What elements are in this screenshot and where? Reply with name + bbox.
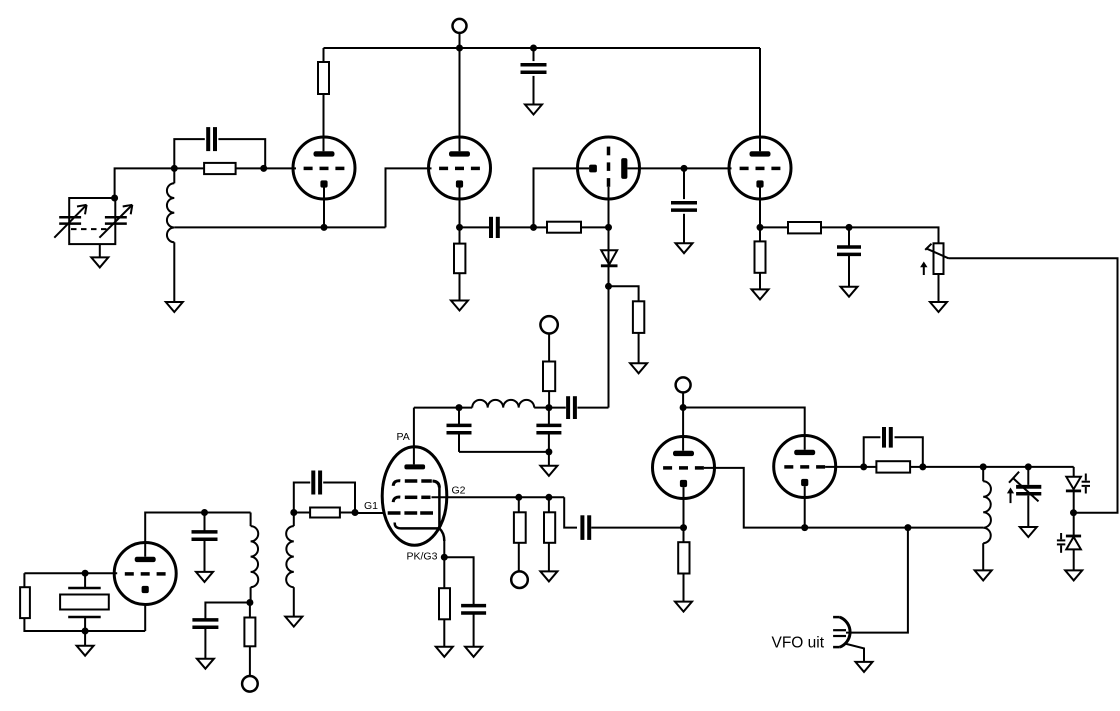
- node C3 out: [530, 224, 537, 231]
- wire C9 frame: [294, 483, 355, 513]
- wire PA anode to pi: [414, 407, 472, 409]
- arrow CT1 adjust: [1007, 488, 1014, 504]
- wire V7 cathode: [85, 605, 145, 632]
- ground D3: [1065, 570, 1082, 580]
- wire cathode to tank tap: [805, 527, 984, 529]
- capacitor C3: [491, 217, 498, 238]
- wire osc B+ to V6: [683, 408, 805, 450]
- resistor R3: [454, 244, 465, 274]
- node X1 bottom: [82, 628, 89, 635]
- wire R6 top lead: [759, 227, 761, 241]
- node grid V1 tank: [171, 165, 178, 172]
- pentode U5 grid3 row: [393, 481, 439, 488]
- resistor R11: [514, 512, 526, 543]
- wire V2 anode: [459, 48, 461, 151]
- wire C6 to pi node: [549, 407, 566, 409]
- ground R10: [436, 647, 453, 657]
- wire ant to R13: [548, 334, 550, 362]
- node B+ at V2 anode: [456, 45, 463, 52]
- pentode U5 grid2 row: [393, 497, 430, 502]
- node V3 grid: [605, 224, 612, 231]
- ground L3: [285, 617, 302, 627]
- node tank coil: [980, 463, 987, 470]
- trimmer CT1 arrow: [1009, 472, 1039, 502]
- wire R6 bottom lead: [759, 273, 761, 290]
- node V3 anode: [681, 165, 688, 172]
- wire R9 left lead: [864, 466, 877, 468]
- wire R13 bottom lead: [548, 391, 550, 408]
- wire L4 right lead: [534, 407, 549, 409]
- wire R2 to V1 grid: [236, 167, 296, 169]
- wire C11 to osc: [591, 527, 683, 529]
- node L3 top: [290, 509, 297, 516]
- wire R16 right lead: [340, 512, 355, 514]
- resistor R4: [547, 222, 581, 233]
- node V4 cathode: [757, 224, 764, 231]
- capacitor C4: [671, 168, 697, 243]
- pentode U5 internal link: [439, 487, 444, 542]
- node V6 grid RC: [860, 463, 867, 470]
- power terminal B+: [453, 19, 467, 48]
- svg-text:G2: G2: [452, 485, 466, 497]
- trimmer capacitor CT1: [1016, 467, 1041, 527]
- wire R5 bottom lead: [638, 333, 640, 363]
- terminal osc B+: [676, 377, 691, 407]
- node C7 tap: [201, 509, 208, 516]
- wire C3 left lead: [460, 226, 492, 228]
- wire cathode bus: [174, 226, 385, 228]
- wire R1 feed: [323, 48, 325, 62]
- wire G1 lead: [355, 512, 384, 514]
- capacitor C7: [192, 513, 218, 572]
- label G2: [452, 485, 466, 497]
- wire R4 right lead: [581, 226, 609, 228]
- wire B+ bus: [324, 47, 761, 49]
- node G1: [352, 509, 359, 516]
- wire C14 frame: [864, 437, 923, 467]
- resistor R16: [310, 508, 340, 518]
- wire V3 anode: [627, 167, 684, 169]
- ground R8: [675, 602, 692, 612]
- wire D2 cathode lead: [1073, 491, 1075, 513]
- wire pi ground lead: [548, 452, 550, 466]
- inductor L3: [286, 513, 294, 588]
- wire R2 left lead: [174, 167, 204, 169]
- triode V2: [429, 137, 491, 199]
- wire L3 bottom: [293, 587, 295, 616]
- variable capacitor CV1 frame: [69, 198, 115, 244]
- label PA: [397, 431, 410, 443]
- ground pi: [540, 466, 557, 476]
- diode D1: [601, 250, 618, 266]
- terminal antenna: [540, 316, 557, 333]
- wire D1 anode lead: [608, 227, 610, 286]
- wire PA anode: [413, 408, 415, 465]
- node pi ground: [545, 448, 552, 455]
- variable capacitor CV1b plates: [105, 217, 127, 223]
- variable capacitor CV1b arrow: [99, 205, 132, 238]
- triode V7: [114, 543, 176, 605]
- variable capacitor CV1a plates: [59, 217, 81, 223]
- capacitor C13: [536, 408, 561, 452]
- resistor R15: [244, 618, 255, 647]
- wire V4 cathode: [759, 188, 761, 228]
- wire P1 bottom lead: [938, 274, 940, 302]
- wire V7 grid: [24, 572, 117, 574]
- wire V6 cathode: [804, 486, 806, 527]
- wire R16 left lead: [294, 512, 310, 514]
- pentode U5 cathode: [395, 523, 440, 529]
- triode V3: [578, 137, 640, 199]
- node R11 top: [515, 494, 522, 501]
- resistor R7: [788, 222, 821, 233]
- potentiometer P1: [934, 243, 944, 274]
- wire R9 right lead: [910, 466, 923, 468]
- wire V1 cathode: [323, 188, 325, 228]
- potentiometer P1 wiper: [925, 244, 948, 259]
- svg-text:PK/G3: PK/G3: [407, 551, 438, 563]
- wire X1 ground lead: [84, 631, 86, 646]
- pentode U5 envelope: [382, 447, 447, 546]
- inductor L1: [167, 168, 174, 242]
- ganged link dashed: [71, 228, 111, 230]
- wire V2 cathode: [459, 188, 461, 228]
- ground C5: [841, 287, 858, 297]
- inductor L4: [472, 400, 534, 408]
- ground R3: [451, 301, 468, 311]
- node pi right: [545, 404, 552, 411]
- capacitor C11: [582, 515, 589, 540]
- resistor R9: [876, 461, 910, 472]
- variable capacitor CV1a arrow: [54, 205, 86, 238]
- wire V7 anode: [145, 513, 250, 557]
- resistor R5: [633, 301, 644, 333]
- connector J1 VFO: [833, 617, 850, 647]
- wire R4 left lead: [534, 226, 548, 228]
- wire R15 bottom lead: [249, 646, 251, 676]
- wire R10 top lead: [443, 557, 445, 588]
- wire V5 grid: [704, 468, 805, 528]
- wire R11 bottom lead: [518, 543, 520, 572]
- ground C4: [676, 243, 693, 253]
- wire R3 top lead: [459, 227, 461, 243]
- wire V3 grid: [608, 187, 610, 228]
- wire VFO out line: [846, 528, 908, 633]
- node L2 out: [246, 599, 253, 606]
- wire L5 bottom: [982, 543, 984, 570]
- node osc B+: [680, 404, 687, 411]
- ground C10: [465, 647, 482, 657]
- wire R14 bottom lead: [24, 618, 85, 631]
- crystal X1: [60, 573, 109, 631]
- wire R8 bottom lead: [683, 574, 685, 602]
- wire C10 feed: [444, 557, 473, 605]
- node RC out: [919, 463, 926, 470]
- wire PK lead: [443, 541, 445, 557]
- node V6 cathode: [801, 524, 808, 531]
- label PK/G3: [407, 551, 438, 563]
- capacitor C12: [447, 408, 472, 452]
- svg-text:VFO uit: VFO uit: [772, 635, 825, 652]
- wire C3 right lead: [498, 226, 534, 228]
- node CV1 top: [111, 195, 118, 202]
- triode V5: [653, 437, 715, 499]
- capacitor C9: [313, 471, 320, 495]
- node V7 grid: [82, 570, 89, 577]
- ground CV1: [91, 257, 108, 267]
- capacitor C5: [837, 227, 861, 286]
- svg-text:G1: G1: [364, 500, 378, 512]
- pentode U5 grid1 row: [388, 511, 433, 515]
- wire G2 to C11: [564, 497, 577, 527]
- wire R15 top lead: [249, 603, 251, 618]
- wire tuning voltage: [949, 258, 1118, 512]
- wire D2 anode lead: [1073, 467, 1075, 477]
- label G1: [364, 500, 378, 512]
- wire R7 right lead: [821, 226, 849, 228]
- node C5: [846, 224, 853, 231]
- resistor R14: [20, 587, 30, 618]
- resistor R12: [544, 512, 555, 543]
- ground R6: [752, 289, 769, 299]
- inductor L2: [251, 513, 259, 588]
- capacitor C14: [884, 427, 891, 448]
- ground X1: [77, 646, 94, 656]
- capacitor C6 coupling: [568, 396, 575, 419]
- wire C1 frame: [174, 139, 265, 168]
- capacitor C8: [192, 620, 218, 659]
- ground L5: [975, 570, 992, 580]
- node tap VFO out: [904, 524, 911, 531]
- node varicap mid: [1070, 509, 1077, 516]
- triode V6: [774, 436, 836, 498]
- resistor R8: [678, 542, 689, 573]
- resistor R13: [543, 362, 555, 392]
- wire V3 anode to V4 grid: [684, 167, 732, 169]
- ground CT1: [1020, 527, 1037, 537]
- pentode U5 anode bar: [404, 464, 425, 469]
- wire R10 bottom lead: [443, 619, 445, 647]
- wire R11 top lead: [518, 497, 520, 512]
- varicap D3: [1057, 533, 1081, 553]
- node V5 cathode: [680, 524, 687, 531]
- wire L2 bottom: [250, 587, 252, 602]
- terminal xtal out: [242, 676, 258, 692]
- wire V4 anode: [759, 48, 761, 151]
- wire C12 bottom: [459, 451, 549, 453]
- triode V4: [729, 137, 791, 199]
- wire R12 top lead: [548, 497, 550, 512]
- resistor R2: [204, 163, 236, 174]
- node R2 out: [260, 165, 267, 172]
- capacitor C1: [208, 127, 215, 151]
- wire V5 cathode: [683, 487, 685, 527]
- wire to V3 cathode: [534, 168, 590, 227]
- wire R5 feed: [609, 286, 639, 301]
- ground C7: [196, 572, 213, 582]
- terminal G2 supply: [511, 571, 528, 588]
- node V1 cathode: [321, 224, 328, 231]
- resistor R1: [318, 62, 329, 94]
- svg-text:PA: PA: [397, 431, 410, 443]
- wire R8 top lead: [683, 528, 685, 543]
- node V2 cathode: [456, 224, 463, 231]
- wire V5 anode: [682, 408, 684, 451]
- wire R12 bottom lead: [548, 543, 550, 572]
- connector J1 shield lead: [845, 644, 864, 662]
- label VFO uit: [772, 635, 825, 652]
- ground R5: [630, 363, 647, 373]
- wire C10 bottom lead: [473, 613, 475, 647]
- triode V1: [293, 137, 355, 199]
- wire Rg left branch: [23, 573, 25, 587]
- ground C2: [525, 105, 542, 115]
- wire bus to V2 grid: [386, 168, 432, 227]
- capacitor C2 decoupling: [521, 48, 547, 105]
- varicap D2: [1066, 474, 1090, 494]
- capacitor C10: [461, 606, 486, 613]
- node pi left: [456, 404, 463, 411]
- resistor R10: [439, 588, 450, 619]
- wire R1 to V1 anode: [323, 94, 325, 151]
- wire L1 bottom: [173, 242, 175, 302]
- wire D3 anode lead: [1073, 550, 1075, 571]
- wire keying line: [577, 286, 608, 407]
- ground P1: [930, 302, 947, 312]
- resistor R6: [755, 241, 766, 272]
- ground L1: [166, 302, 183, 312]
- ground C8: [197, 659, 214, 669]
- node PK: [441, 554, 448, 561]
- node trimmer top: [1025, 463, 1032, 470]
- wire V6 grid: [825, 466, 864, 468]
- ground R12: [540, 571, 557, 581]
- wire tank line: [923, 466, 1074, 468]
- ground J1: [856, 662, 873, 672]
- node D1 out: [605, 283, 612, 290]
- arrow P1 adjust: [920, 262, 927, 276]
- wire G2 lead: [432, 496, 565, 498]
- node R12 top: [545, 494, 552, 501]
- wire C8 feed: [205, 603, 250, 620]
- wire D3 cathode lead: [1073, 513, 1075, 536]
- wire grid node riser: [115, 168, 175, 198]
- node B+ decoupling: [530, 45, 537, 52]
- wire to pot P1: [849, 227, 939, 243]
- wire R3 bottom lead: [459, 273, 461, 300]
- wire R7 left lead: [760, 226, 788, 228]
- wire CV1 ground lead: [99, 244, 101, 257]
- inductor L5: [983, 467, 991, 543]
